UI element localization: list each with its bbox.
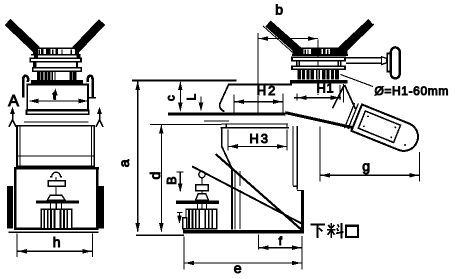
lower screen box top edge — [14, 167, 99, 169]
box bottom second line — [9, 231, 99, 233]
side view right arm — [336, 19, 374, 55]
dimension e — [183, 237, 185, 270]
side flange plate 3 — [292, 66, 345, 69]
svg-text:B: B — [165, 176, 179, 184]
svg-text:H1: H1 — [317, 81, 335, 96]
screen box right wall — [292, 126, 294, 186]
right hook foot — [89, 97, 96, 99]
dimension B line — [177, 171, 184, 173]
second flange plate — [33, 68, 81, 72]
right spring anchor — [96, 107, 103, 127]
mid hopper box — [17, 126, 94, 167]
side coil bars — [298, 69, 339, 79]
lower screen box — [15, 169, 97, 229]
small gap dimension — [177, 212, 183, 214]
vibrator bottom flange — [31, 80, 83, 84]
dimension h extension lines — [16, 234, 18, 258]
dimension t leader arrow — [53, 88, 58, 95]
dimension line h — [17, 250, 93, 252]
spout neck lines — [348, 104, 358, 129]
side vibrator weight — [196, 185, 209, 191]
discharge spout — [344, 102, 422, 156]
side top plate — [296, 47, 340, 49]
plate feet — [34, 55, 38, 58]
vibrator bell — [47, 195, 65, 200]
screen box left wall — [222, 128, 232, 229]
dimension c line — [179, 82, 181, 111]
side bottom flange — [290, 80, 348, 84]
adjusting shaft — [346, 57, 382, 59]
left hanger hook — [23, 76, 28, 98]
dimension i — [258, 235, 260, 250]
dimension line t — [30, 100, 88, 102]
connector studs — [50, 204, 52, 210]
vibrator weight block — [48, 181, 65, 186]
side motor block — [186, 209, 217, 229]
top reference line — [132, 80, 237, 82]
left outer rail — [7, 186, 13, 229]
side vibrator bell — [196, 194, 209, 201]
side spacers — [296, 61, 298, 66]
svg-text:H3: H3 — [249, 131, 270, 146]
vibrator coil bars — [37, 72, 40, 81]
dimension g — [319, 127, 321, 182]
vibrator rod — [55, 186, 57, 195]
svg-text:L: L — [185, 94, 199, 101]
svg-text:b: b — [275, 1, 283, 17]
svg-text:e: e — [234, 260, 242, 276]
motor block hatched — [41, 209, 72, 228]
svg-text:d: d — [147, 172, 163, 180]
side flange plate 2 — [292, 57, 345, 61]
side vibrator hook ring — [199, 171, 205, 177]
bottom plate — [183, 230, 304, 234]
inner guide line — [239, 171, 241, 186]
trough incline thick line — [285, 113, 356, 129]
hopper inner line — [17, 155, 94, 157]
left suspension arm — [5, 19, 40, 53]
dimension d extension — [150, 123, 222, 125]
right suspension arm — [72, 19, 105, 53]
svg-text:g: g — [362, 158, 370, 174]
side view left arm — [265, 21, 301, 55]
leader line phi — [341, 75, 374, 87]
svg-text:a: a — [116, 159, 132, 167]
right hanger hook — [88, 76, 93, 98]
svg-text:Ø=H1-60mm: Ø=H1-60mm — [375, 84, 449, 98]
svg-text:A: A — [8, 93, 19, 110]
trough rim line — [229, 83, 292, 85]
left spring anchor — [9, 107, 16, 127]
dimension H3 — [227, 130, 229, 151]
vibrator cross bar — [36, 201, 79, 204]
dimension a line — [137, 82, 139, 232]
dimension d line — [160, 125, 162, 231]
hanging hook arc — [50, 172, 62, 176]
side motor side plate — [183, 218, 187, 229]
vibrator hanger pin — [55, 177, 57, 181]
dimension L line — [200, 97, 202, 111]
shaft taper — [382, 57, 387, 65]
right outer rail — [98, 186, 104, 229]
discharge wall bar — [301, 190, 304, 234]
dimension H2 — [233, 95, 235, 114]
trough back wall — [220, 84, 229, 112]
trough bottom thick line — [168, 113, 286, 116]
upper flange plate — [30, 58, 81, 62]
side connector studs — [197, 204, 199, 210]
body bottom flange — [27, 110, 89, 114]
label discharge port (hand-drawn CJK strokes) — [311, 225, 326, 239]
handwheel — [393, 47, 398, 52]
dimension H1 — [296, 94, 298, 101]
screen box rim — [222, 123, 288, 125]
machine centerline — [317, 39, 319, 95]
side vibrator pin — [201, 178, 203, 185]
handwheel hub — [387, 54, 391, 72]
spacer block — [33, 62, 37, 67]
chute diagonal upper — [192, 166, 304, 224]
chute diagonal lower — [216, 154, 304, 232]
side cross bar — [176, 201, 219, 204]
b extension line — [257, 33, 259, 115]
side vibrator rod — [201, 191, 203, 194]
svg-text:c: c — [166, 95, 178, 101]
V support bracket — [333, 85, 345, 108]
dimension b line — [258, 38, 318, 40]
spacer verticals — [34, 62, 36, 68]
hopper rim plate — [24, 121, 89, 123]
svg-text:h: h — [53, 234, 61, 250]
top mounting plate (section) — [34, 47, 77, 49]
trough body box — [27, 85, 88, 110]
trough support short line — [204, 120, 229, 122]
bottom baseline — [136, 234, 184, 236]
svg-text:H2: H2 — [257, 83, 278, 98]
